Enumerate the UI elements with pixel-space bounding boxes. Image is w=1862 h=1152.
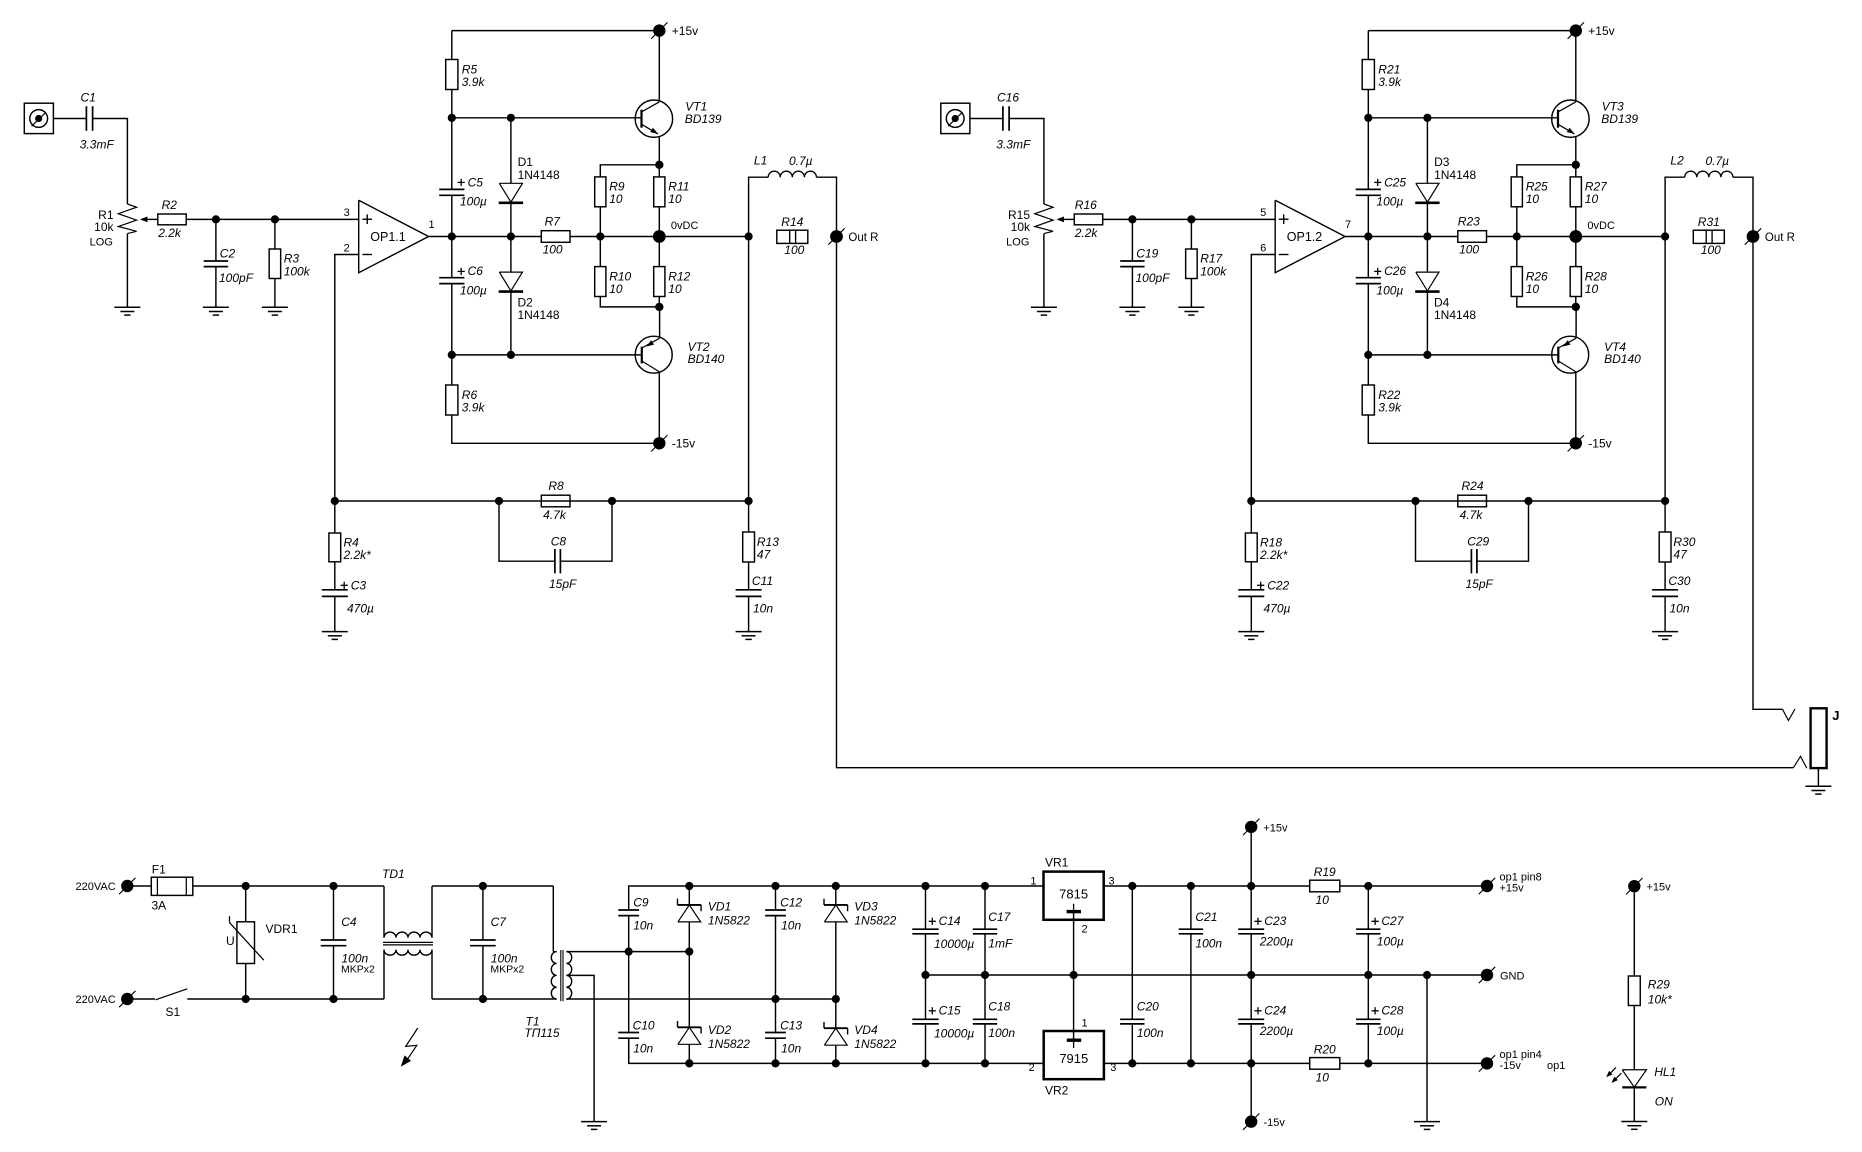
svg-text:1N4148: 1N4148 bbox=[1434, 168, 1476, 182]
capacitor C4 100n MKPx2 bbox=[333, 886, 335, 940]
wire VR2 pin1 to GND rail bbox=[1073, 975, 1075, 1041]
svg-text:Out R: Out R bbox=[1765, 232, 1795, 244]
svg-text:100: 100 bbox=[1701, 243, 1721, 257]
ground under C11 bbox=[736, 632, 762, 640]
capacitor C24 2200u (polarized) bbox=[1250, 975, 1252, 1019]
svg-text:VD3: VD3 bbox=[854, 899, 878, 913]
svg-text:220VAC: 220VAC bbox=[76, 881, 116, 893]
wire VT1 emitter bbox=[658, 136, 660, 165]
svg-text:ON: ON bbox=[1655, 1094, 1673, 1108]
svg-text:+15v: +15v bbox=[1647, 882, 1672, 894]
junction C5 top bbox=[448, 114, 456, 122]
capacitor C10 10n bbox=[628, 952, 630, 1033]
svg-text:220VAC: 220VAC bbox=[76, 994, 116, 1006]
capacitor C15 10000u (polarized) bbox=[925, 975, 927, 1019]
resistor R14 100 (fusible) bbox=[777, 230, 808, 243]
resistor R3 100k bbox=[274, 219, 276, 249]
svg-text:100pF: 100pF bbox=[219, 271, 254, 285]
svg-text:1: 1 bbox=[428, 219, 434, 231]
ground under C2 bbox=[1119, 307, 1145, 315]
wire base row upper bbox=[452, 117, 642, 119]
junction VT1 emitter node bbox=[655, 161, 663, 169]
svg-text:2200µ: 2200µ bbox=[1259, 1024, 1294, 1038]
wire +15v output rail bbox=[1104, 885, 1310, 887]
junction VT2 emitter node bbox=[1572, 303, 1580, 311]
svg-text:3A: 3A bbox=[152, 898, 167, 912]
svg-text:3.9k: 3.9k bbox=[1378, 75, 1402, 89]
svg-text:R7: R7 bbox=[545, 215, 562, 229]
power node +15v bbox=[651, 22, 667, 38]
junction +15 rail C21 bbox=[1187, 882, 1195, 890]
wire LED to ground bbox=[1633, 1087, 1635, 1121]
svg-text:+15v: +15v bbox=[1500, 883, 1525, 895]
node 0vDC bbox=[653, 230, 666, 243]
resistor R9 10 bbox=[600, 165, 659, 177]
junction R9/R10 bbox=[1513, 232, 1521, 240]
svg-text:3.9k: 3.9k bbox=[462, 75, 486, 89]
svg-text:1N5822: 1N5822 bbox=[708, 913, 750, 927]
svg-text:3.3mF: 3.3mF bbox=[80, 138, 115, 152]
capacitor C5 100u (polarized) bbox=[451, 118, 453, 190]
junction feedback right bbox=[745, 497, 753, 505]
svg-text:-15v: -15v bbox=[1264, 1117, 1286, 1129]
capacitor C2 100pF bbox=[215, 219, 217, 261]
svg-text:0vDC: 0vDC bbox=[1587, 220, 1615, 232]
svg-text:Out R: Out R bbox=[848, 232, 878, 244]
svg-text:0.7µ: 0.7µ bbox=[1706, 154, 1730, 168]
wire base row upper bbox=[1368, 117, 1558, 119]
wire feedback row bbox=[1251, 500, 1665, 502]
wire op-amp -input stub bbox=[1251, 255, 1275, 502]
capacitor C23 2200u (polarized) bbox=[1250, 886, 1252, 929]
svg-text:MKPx2: MKPx2 bbox=[341, 964, 375, 976]
svg-text:C19: C19 bbox=[1136, 247, 1158, 261]
resistor R4 2.2k* bbox=[334, 501, 336, 533]
capacitor C25 100u (polarized) bbox=[1367, 118, 1369, 190]
junction VDR1 top bbox=[242, 882, 250, 890]
wire VT2 emitter up bbox=[659, 307, 661, 338]
svg-text:1N5822: 1N5822 bbox=[708, 1037, 750, 1051]
node +15v above bbox=[1243, 819, 1259, 835]
svg-text:+15v: +15v bbox=[1263, 822, 1288, 834]
junction top rail VD1 bbox=[685, 882, 693, 890]
svg-text:C29: C29 bbox=[1467, 535, 1489, 549]
junction feedback left bbox=[1247, 497, 1255, 505]
capacitor C27 100u (polarized) bbox=[1367, 886, 1369, 929]
svg-text:3.9k: 3.9k bbox=[462, 400, 486, 414]
ground under C11 bbox=[1652, 632, 1678, 640]
switch S1 bbox=[134, 998, 156, 1000]
junction node R3 bbox=[1187, 215, 1195, 223]
resistor R21 3.9k bbox=[1367, 31, 1369, 60]
svg-text:C18: C18 bbox=[988, 1000, 1010, 1014]
diode VD3 1N5822 (schottky) bbox=[835, 886, 837, 905]
junction top rail VD3 bbox=[832, 882, 840, 890]
wire R2 to op-amp +input bbox=[186, 218, 359, 220]
headphone jack J bbox=[1811, 708, 1827, 768]
wire VT2 collector down bbox=[658, 372, 660, 443]
resistor R12 10 bbox=[658, 237, 660, 267]
junction top rail C14 bbox=[921, 882, 929, 890]
svg-text:C28: C28 bbox=[1381, 1004, 1403, 1018]
junction VR pins on GND rail bbox=[1070, 971, 1078, 979]
svg-text:C23: C23 bbox=[1264, 914, 1286, 928]
power node -15v bbox=[1568, 435, 1584, 451]
ground under GND rail bbox=[1414, 1122, 1440, 1130]
svg-text:C4: C4 bbox=[341, 915, 357, 929]
junction C4 top bbox=[329, 882, 337, 890]
svg-text:2: 2 bbox=[1082, 924, 1088, 936]
junction C6 bottom bbox=[448, 351, 456, 359]
svg-text:-15v: -15v bbox=[672, 437, 695, 451]
svg-text:2.2k: 2.2k bbox=[157, 226, 182, 240]
svg-text:R16: R16 bbox=[1075, 198, 1097, 212]
resistor R30 47 bbox=[1664, 501, 1666, 532]
svg-text:10n: 10n bbox=[781, 919, 801, 933]
ground under center tap bbox=[581, 1122, 607, 1130]
wire Out R right channel to jack (top) bbox=[1753, 243, 1783, 709]
wire VT1 emitter bbox=[1575, 136, 1577, 165]
svg-text:C1: C1 bbox=[81, 91, 96, 105]
resistor R29 10k* bbox=[1628, 976, 1640, 1006]
svg-text:100n: 100n bbox=[988, 1026, 1015, 1040]
svg-text:10k*: 10k* bbox=[1648, 993, 1672, 1007]
resistor R7 100 bbox=[541, 231, 570, 243]
capacitor C7 100n MKPx2 bbox=[482, 886, 484, 940]
junction D1 top bbox=[507, 114, 515, 122]
ground under R1 bbox=[1031, 307, 1057, 315]
svg-text:VD4: VD4 bbox=[854, 1023, 878, 1037]
wire R7 to output node bbox=[1487, 236, 1666, 238]
wire 220VAC to fuse bbox=[134, 885, 152, 887]
junction C8 left bbox=[495, 497, 503, 505]
power node -15v bbox=[651, 435, 667, 451]
svg-text:L2: L2 bbox=[1670, 154, 1684, 168]
svg-text:3.3mF: 3.3mF bbox=[996, 138, 1031, 152]
wire break symbol bottom bbox=[1793, 756, 1806, 768]
wire C1 to R1 bbox=[1009, 119, 1044, 205]
svg-text:C11: C11 bbox=[752, 574, 773, 588]
junction node R3 bbox=[271, 215, 279, 223]
svg-text:C25: C25 bbox=[1384, 175, 1406, 189]
wire secondary center tap bbox=[566, 975, 594, 1121]
svg-text:3.9k: 3.9k bbox=[1378, 400, 1402, 414]
wire +15v node down bbox=[1250, 833, 1252, 886]
svg-text:OP1.2: OP1.2 bbox=[1287, 230, 1322, 244]
svg-text:1N4148: 1N4148 bbox=[1434, 308, 1476, 322]
junction at D1/D2 column bbox=[507, 232, 515, 240]
capacitor C17 1mF bbox=[984, 886, 986, 929]
svg-text:LOG: LOG bbox=[1006, 237, 1029, 249]
svg-text:R23: R23 bbox=[1458, 215, 1480, 229]
transformer T1 core bbox=[560, 950, 562, 1001]
svg-text:10000µ: 10000µ bbox=[934, 1027, 974, 1041]
resistor R27 10 bbox=[1575, 165, 1577, 177]
svg-text:2.2k*: 2.2k* bbox=[343, 548, 372, 562]
junction AC2 at VD3/VD4 bbox=[832, 995, 840, 1003]
wire op-amp -input stub bbox=[335, 255, 359, 502]
svg-text:C8: C8 bbox=[551, 535, 567, 549]
transistor VT3 BD139 (NPN) bbox=[1552, 100, 1589, 137]
svg-text:4.7k: 4.7k bbox=[543, 508, 567, 522]
resistor R8 4.7k bbox=[541, 495, 570, 507]
junction R9/R10 bbox=[596, 232, 604, 240]
resistor R17 100k bbox=[1190, 219, 1192, 249]
svg-text:R19: R19 bbox=[1314, 865, 1336, 879]
wire op-amp output line bbox=[429, 236, 542, 238]
wire op-amp output line bbox=[1345, 236, 1458, 238]
junction -15 rail C20 bbox=[1128, 1059, 1136, 1067]
wire -15v output rail bbox=[1104, 1062, 1310, 1064]
svg-text:BD139: BD139 bbox=[1601, 112, 1638, 126]
svg-text:0vDC: 0vDC bbox=[671, 220, 699, 232]
wire VT2 emitter up bbox=[1575, 307, 1577, 338]
svg-text:100µ: 100µ bbox=[1376, 284, 1403, 298]
wire +15v rail top bbox=[1368, 30, 1576, 32]
wire TD1 to C7/T1 top bbox=[432, 885, 553, 887]
diode D3 1N4148 bbox=[1426, 118, 1428, 184]
svg-text:C20: C20 bbox=[1137, 1000, 1159, 1014]
wire VT1 collector bbox=[1575, 31, 1577, 102]
svg-text:100µ: 100µ bbox=[460, 284, 487, 298]
junction node C2 bbox=[212, 215, 220, 223]
wire R13 column from output bbox=[1664, 237, 1666, 502]
svg-text:100µ: 100µ bbox=[1377, 934, 1404, 948]
junction C6 bottom bbox=[1364, 351, 1372, 359]
transistor VT2 BD140 (PNP) bbox=[635, 336, 672, 373]
svg-text:R20: R20 bbox=[1314, 1042, 1336, 1056]
svg-text:100pF: 100pF bbox=[1136, 271, 1171, 285]
svg-text:100: 100 bbox=[1459, 243, 1479, 257]
svg-text:1N5822: 1N5822 bbox=[854, 1037, 896, 1051]
capacitor C6 100u (polarized) bbox=[451, 237, 453, 278]
diode VD1 1N5822 (schottky) bbox=[688, 886, 690, 905]
ground under R3 bbox=[1178, 307, 1204, 315]
wire secondary top (AC1) bbox=[566, 951, 689, 953]
svg-text:C30: C30 bbox=[1668, 574, 1690, 588]
input connector IN R bbox=[24, 103, 53, 133]
svg-text:C12: C12 bbox=[780, 895, 802, 909]
svg-text:3: 3 bbox=[344, 207, 350, 219]
svg-text:2: 2 bbox=[1029, 1062, 1035, 1074]
svg-text:C17: C17 bbox=[988, 910, 1011, 924]
svg-text:0.7µ: 0.7µ bbox=[789, 154, 813, 168]
capacitor C18 100n bbox=[984, 975, 986, 1019]
input connector IN L bbox=[941, 103, 970, 133]
svg-text:2.2k*: 2.2k* bbox=[1259, 548, 1288, 562]
svg-text:ТП115: ТП115 bbox=[524, 1026, 559, 1040]
junction +15 rail C27 bbox=[1364, 882, 1372, 890]
svg-text:C14: C14 bbox=[939, 914, 961, 928]
svg-text:1mF: 1mF bbox=[988, 936, 1013, 950]
capacitor C1 3.3mF bbox=[86, 106, 92, 131]
op-amp OP1.1 bbox=[359, 200, 429, 272]
junction top rail C17 bbox=[981, 882, 989, 890]
wire +15v rail top bbox=[452, 30, 660, 32]
junction GND C23/C24 bbox=[1247, 971, 1255, 979]
resistor R13 47 bbox=[748, 501, 750, 532]
junction -15 rail C28 bbox=[1364, 1059, 1372, 1067]
resistor R26 10 bbox=[1516, 237, 1518, 267]
svg-text:10: 10 bbox=[1585, 282, 1599, 296]
wire connector to C1 bbox=[970, 118, 1003, 120]
resistor R31 100 (fusible) bbox=[1693, 230, 1724, 243]
junction VT2 emitter node bbox=[655, 303, 663, 311]
svg-text:U: U bbox=[226, 934, 235, 948]
svg-text:10n: 10n bbox=[781, 1042, 801, 1056]
wire TD1 to T1 bottom bbox=[432, 998, 553, 1000]
svg-text:C26: C26 bbox=[1384, 264, 1406, 278]
junction at C5/C6 column bbox=[448, 232, 456, 240]
resistor R22 3.9k bbox=[1367, 355, 1369, 385]
terminal 220VAC line bbox=[119, 878, 135, 894]
junction AC1 at C9/C10 bbox=[625, 948, 633, 956]
junction feedback left bbox=[331, 497, 339, 505]
svg-text:OP1.1: OP1.1 bbox=[370, 230, 405, 244]
resistor R19 10 bbox=[1310, 880, 1340, 892]
junction bottom rail C15 bbox=[921, 1059, 929, 1067]
capacitor C3 470u (polarized) bbox=[322, 590, 348, 597]
svg-text:R29: R29 bbox=[1648, 977, 1670, 991]
junction node C2 bbox=[1128, 215, 1136, 223]
transistor VT1 BD139 (NPN) bbox=[635, 100, 672, 137]
wire +15v to R29 bbox=[1633, 892, 1635, 976]
svg-text:R14: R14 bbox=[781, 215, 803, 229]
wire VT1 collector bbox=[658, 31, 660, 102]
wire base row lower bbox=[452, 354, 642, 356]
junction D2 bottom bbox=[507, 351, 515, 359]
resistor R2 2.2k bbox=[158, 214, 186, 225]
wire VT2 collector down bbox=[1575, 372, 1577, 443]
svg-text:+15v: +15v bbox=[672, 24, 698, 38]
junction C8 right bbox=[608, 497, 616, 505]
junction VDR1 bottom bbox=[242, 995, 250, 1003]
svg-text:470µ: 470µ bbox=[347, 601, 374, 615]
svg-text:F1: F1 bbox=[152, 863, 166, 877]
svg-text:100µ: 100µ bbox=[1376, 194, 1403, 208]
wire DC top rail bbox=[629, 886, 1044, 910]
output node Out R bbox=[1745, 228, 1761, 244]
ground under R1 bbox=[114, 307, 140, 315]
svg-text:100: 100 bbox=[784, 243, 804, 257]
terminal op1 pin8 +15v bbox=[1479, 878, 1495, 894]
svg-text:10: 10 bbox=[1526, 192, 1540, 206]
junction L1/R14 left bbox=[745, 232, 753, 240]
svg-text:C2: C2 bbox=[220, 247, 236, 261]
svg-text:2.2k: 2.2k bbox=[1074, 226, 1099, 240]
junction GND C17/C18 bbox=[981, 971, 989, 979]
svg-text:100k: 100k bbox=[1200, 264, 1227, 278]
svg-text:470µ: 470µ bbox=[1264, 601, 1291, 615]
svg-text:C5: C5 bbox=[468, 175, 484, 189]
junction D2 bottom bbox=[1423, 351, 1431, 359]
svg-text:J: J bbox=[1832, 708, 1839, 723]
capacitor C11 10n bbox=[736, 590, 762, 597]
wire VR1 pin2 to GND rail bbox=[1073, 912, 1075, 976]
wire R1 wiper down to ground bbox=[1043, 234, 1045, 308]
svg-text:1N4148: 1N4148 bbox=[518, 308, 560, 322]
wire jack to ground bbox=[1817, 768, 1819, 786]
svg-text:1: 1 bbox=[1030, 875, 1036, 887]
op-amp OP1.2 bbox=[1275, 200, 1345, 272]
svg-text:2200µ: 2200µ bbox=[1259, 934, 1294, 948]
svg-text:100: 100 bbox=[543, 243, 563, 257]
junction C5 top bbox=[1364, 114, 1372, 122]
svg-text:VD2: VD2 bbox=[708, 1023, 732, 1037]
inductor L2 0.7u bbox=[1665, 177, 1685, 236]
svg-text:5: 5 bbox=[1260, 207, 1266, 219]
svg-text:C13: C13 bbox=[780, 1018, 802, 1032]
svg-text:6: 6 bbox=[1260, 243, 1266, 255]
svg-text:4.7k: 4.7k bbox=[1460, 508, 1484, 522]
resistor R5 3.9k bbox=[451, 31, 453, 60]
svg-text:10k: 10k bbox=[1011, 220, 1031, 234]
junction top rail C12 bbox=[771, 882, 779, 890]
fuse F1 3A bbox=[151, 877, 193, 895]
svg-text:LOG: LOG bbox=[90, 237, 113, 249]
svg-text:R2: R2 bbox=[162, 198, 178, 212]
svg-text:C24: C24 bbox=[1264, 1004, 1286, 1018]
capacitor C13 10n bbox=[775, 999, 777, 1033]
wire ground drop bbox=[1426, 975, 1428, 1122]
wire R13 column from output bbox=[748, 237, 750, 502]
junction VT1 emitter node bbox=[1572, 161, 1580, 169]
svg-text:10: 10 bbox=[1316, 893, 1330, 907]
junction +15 rail C23 bbox=[1247, 882, 1255, 890]
svg-text:10n: 10n bbox=[633, 919, 653, 933]
svg-text:MKPx2: MKPx2 bbox=[490, 964, 524, 976]
svg-text:10000µ: 10000µ bbox=[934, 937, 974, 951]
svg-text:VR1: VR1 bbox=[1045, 855, 1069, 869]
junction AC1 at VD1/VD2 bbox=[685, 948, 693, 956]
svg-text:BD139: BD139 bbox=[685, 112, 722, 126]
svg-text:10: 10 bbox=[609, 282, 623, 296]
junction GND C27/C28 bbox=[1364, 971, 1372, 979]
potentiometer R15 10k LOG bbox=[1035, 204, 1053, 234]
power node +15v bbox=[1568, 22, 1584, 38]
wire fuse to TD1 bbox=[192, 885, 384, 887]
lightning symbol bbox=[406, 1028, 418, 1059]
svg-text:10: 10 bbox=[1585, 192, 1599, 206]
wire GND rail bbox=[926, 974, 1488, 976]
svg-text:100µ: 100µ bbox=[460, 194, 487, 208]
wire feedback row bbox=[335, 500, 749, 502]
inductor L1 0.7u bbox=[749, 177, 769, 236]
svg-text:100n: 100n bbox=[1137, 1026, 1164, 1040]
capacitor C14 10000u (polarized) bbox=[925, 886, 927, 929]
diode D2 1N4148 bbox=[510, 237, 512, 273]
junction bottom rail C18 bbox=[981, 1059, 989, 1067]
junction D1 top bbox=[1423, 114, 1431, 122]
svg-text:C7: C7 bbox=[491, 915, 508, 929]
wire connector to C1 bbox=[53, 118, 86, 120]
svg-text:1: 1 bbox=[1082, 1017, 1088, 1029]
junction bottom rail C13 bbox=[771, 1059, 779, 1067]
svg-text:100n: 100n bbox=[1195, 936, 1222, 950]
resistor R28 10 bbox=[1575, 237, 1577, 267]
svg-text:VD1: VD1 bbox=[708, 899, 731, 913]
svg-text:10k: 10k bbox=[94, 220, 114, 234]
ground under R3 bbox=[262, 307, 288, 315]
capacitor C26 100u (polarized) bbox=[1367, 237, 1369, 278]
wire S1 to TD1 bbox=[187, 998, 384, 1000]
svg-text:R31: R31 bbox=[1698, 215, 1720, 229]
svg-text:10: 10 bbox=[1316, 1070, 1330, 1084]
capacitor C16 3.3mF bbox=[1003, 106, 1009, 131]
junction GND C14/C15 bbox=[921, 971, 929, 979]
diode D1 1N4148 bbox=[510, 118, 512, 184]
capacitor C19 100pF bbox=[1131, 219, 1133, 261]
